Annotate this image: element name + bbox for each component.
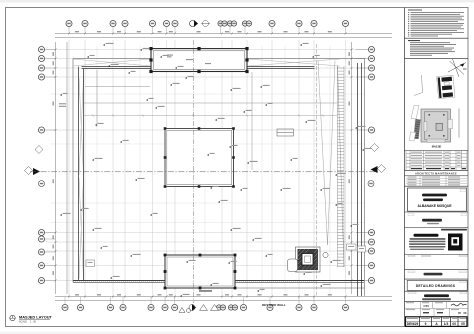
- interior dim string: [84, 114, 337, 116]
- consultant logo box: [441, 229, 467, 231]
- approvals mini table: [406, 176, 467, 186]
- stair flight: [338, 66, 345, 267]
- svg-text:DETAILED DRAWINGS: DETAILED DRAWINGS: [416, 284, 456, 288]
- center axis vertical: [193, 40, 195, 303]
- sheet title box: [460, 292, 467, 294]
- svg-text:1 : 50: 1 : 50: [30, 321, 37, 324]
- level marker left: [39, 181, 45, 187]
- central hall: [164, 127, 235, 188]
- site road right: [458, 109, 460, 138]
- svg-text:05: 05: [461, 322, 465, 326]
- svg-text:00: 00: [452, 322, 456, 326]
- dimension numbers: [53, 31, 350, 295]
- dimension lines bottom: [55, 296, 392, 298]
- section marker bottom: [192, 304, 196, 311]
- grid bubbles top row: [66, 20, 349, 34]
- room caption bottom: [199, 290, 212, 291]
- svg-text:DET GRID WALL: DET GRID WALL: [262, 303, 286, 307]
- svg-text:SCALE: SCALE: [19, 321, 27, 324]
- detail element hatched square: [288, 247, 329, 272]
- minaret room top-right: [149, 47, 248, 73]
- svg-text:ALBANAKE MOSQUE: ALBANAKE MOSQUE: [417, 204, 452, 208]
- level marker right: [368, 181, 374, 187]
- key plan road: [414, 75, 423, 96]
- svg-text:DE0629: DE0629: [407, 322, 419, 326]
- dimension lines right: [351, 42, 353, 294]
- general notes text: [408, 10, 464, 37]
- grid bubbles right column: [356, 46, 386, 283]
- drawing number strip: [406, 317, 468, 327]
- grid bubbles bottom row: [62, 290, 349, 312]
- section line horizontal: [30, 171, 378, 173]
- section cut marker right: [371, 166, 378, 173]
- dimension ticks: [55, 33, 353, 298]
- owner box: [408, 214, 414, 216]
- title block divider: [404, 8, 406, 327]
- left margin dim text: [59, 103, 66, 104]
- section marker top: [190, 21, 196, 27]
- svg-text:1:50: 1:50: [423, 304, 429, 308]
- dimension lines top: [55, 34, 392, 301]
- minaret taper lines: [318, 61, 335, 246]
- signature scribble: [451, 303, 467, 305]
- axis vertical secondary: [316, 44, 318, 296]
- section cut marker left: [33, 168, 40, 175]
- legend notes text: [408, 40, 456, 56]
- secondary grid lines: [50, 46, 365, 295]
- grid lines: [46, 40, 368, 298]
- leader annotations: [60, 43, 372, 297]
- site plan mosque block: [421, 109, 452, 142]
- contractor box: [408, 255, 415, 257]
- svg-text:1/3: 1/3: [444, 322, 449, 326]
- roof brace diagonals top band: [73, 59, 340, 279]
- project name box: [408, 188, 467, 211]
- bottom hall: [164, 254, 237, 290]
- svg-text:ARCHITECTS MAINTENANCE: ARCHITECTS MAINTENANCE: [415, 172, 457, 175]
- small boxes near detail: [347, 244, 366, 252]
- right wall: [357, 63, 359, 296]
- sheet title: [10, 314, 53, 323]
- bottom wall: [73, 280, 364, 282]
- room labels: [167, 55, 211, 65]
- roof outline: [73, 59, 365, 297]
- dimension lines left: [55, 42, 57, 294]
- site plan trees strip: [414, 119, 421, 139]
- location box: [408, 271, 415, 273]
- small detail box lower-left: [86, 260, 95, 267]
- site plan road strip: [411, 106, 419, 120]
- key plan buildings: [437, 75, 455, 98]
- interior dims: [85, 70, 252, 170]
- left wall: [78, 67, 80, 281]
- revision table: [406, 151, 467, 171]
- site plan small buildings: [410, 132, 416, 141]
- svg-text:MASJID: MASJID: [432, 146, 442, 149]
- scale table: [405, 302, 469, 317]
- top wall: [79, 63, 362, 296]
- north arrow roads: [448, 59, 466, 77]
- bottom aux markers: [179, 308, 185, 313]
- detail marker diamond right: [371, 144, 379, 152]
- arcade line: [84, 102, 337, 104]
- grid bubbles left column: [25, 46, 56, 283]
- drawing type box: [407, 280, 467, 290]
- detail marker diamond left: [35, 146, 43, 154]
- bench element: [277, 129, 294, 136]
- svg-text:9: 9: [425, 322, 427, 326]
- svg-text:MASJED LAYOUT: MASJED LAYOUT: [19, 314, 53, 319]
